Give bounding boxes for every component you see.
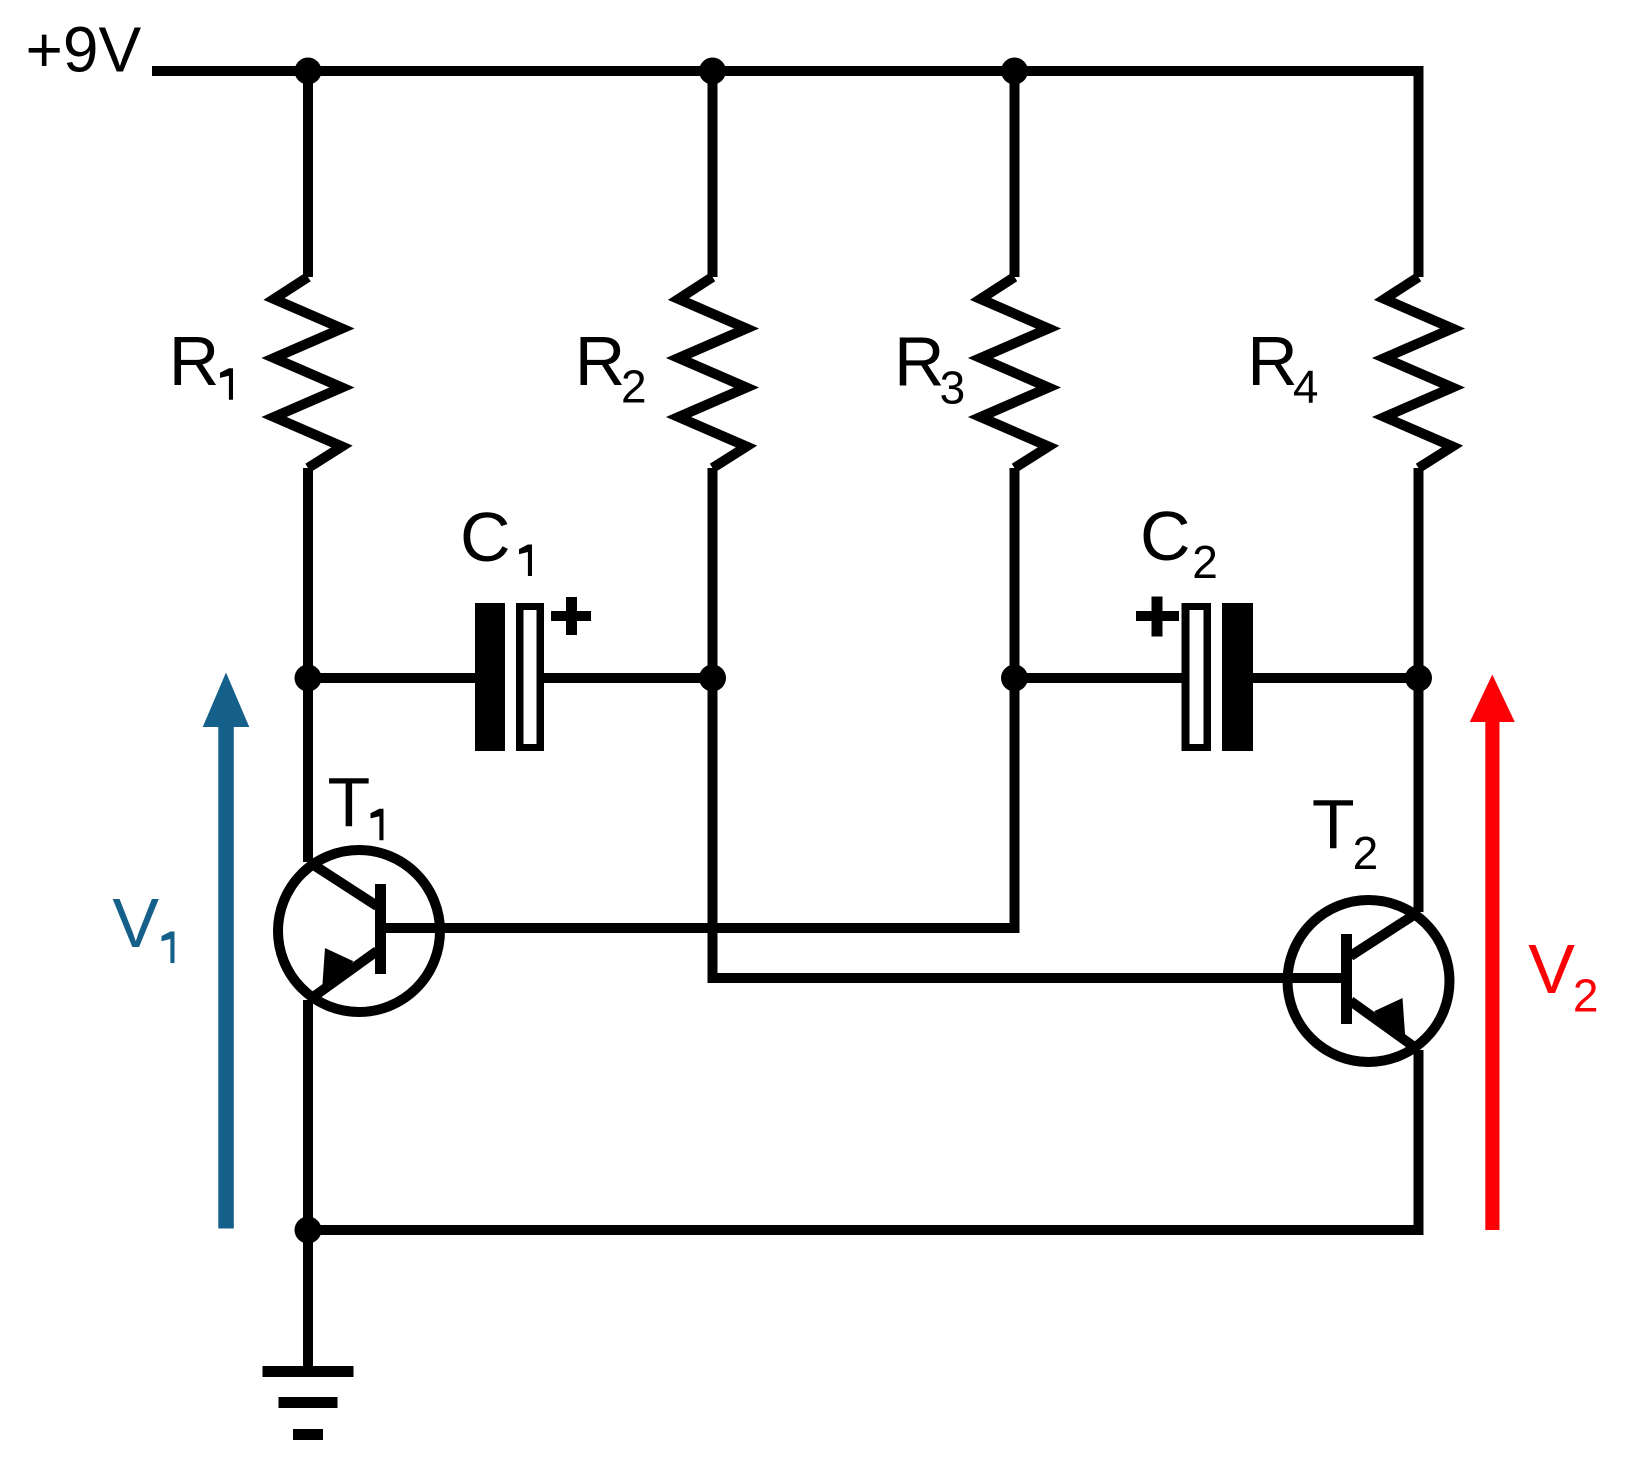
svg-text:4: 4 (1293, 361, 1319, 413)
svg-text:V: V (1528, 930, 1575, 1008)
svg-text:3: 3 (940, 362, 966, 414)
svg-text:2: 2 (621, 361, 647, 413)
svg-text:V: V (112, 884, 159, 962)
svg-text:T: T (328, 763, 371, 841)
svg-text:2: 2 (1573, 970, 1599, 1022)
svg-text:C: C (1140, 497, 1191, 575)
svg-text:2: 2 (1192, 536, 1218, 588)
svg-text:2: 2 (1353, 827, 1379, 879)
svg-text:R: R (169, 322, 220, 400)
svg-text:R: R (1247, 322, 1298, 400)
svg-text:R: R (575, 322, 626, 400)
svg-text:+9V: +9V (26, 14, 142, 86)
svg-text:T: T (1312, 785, 1355, 863)
svg-text:C: C (460, 498, 511, 576)
svg-text:R: R (894, 323, 945, 401)
